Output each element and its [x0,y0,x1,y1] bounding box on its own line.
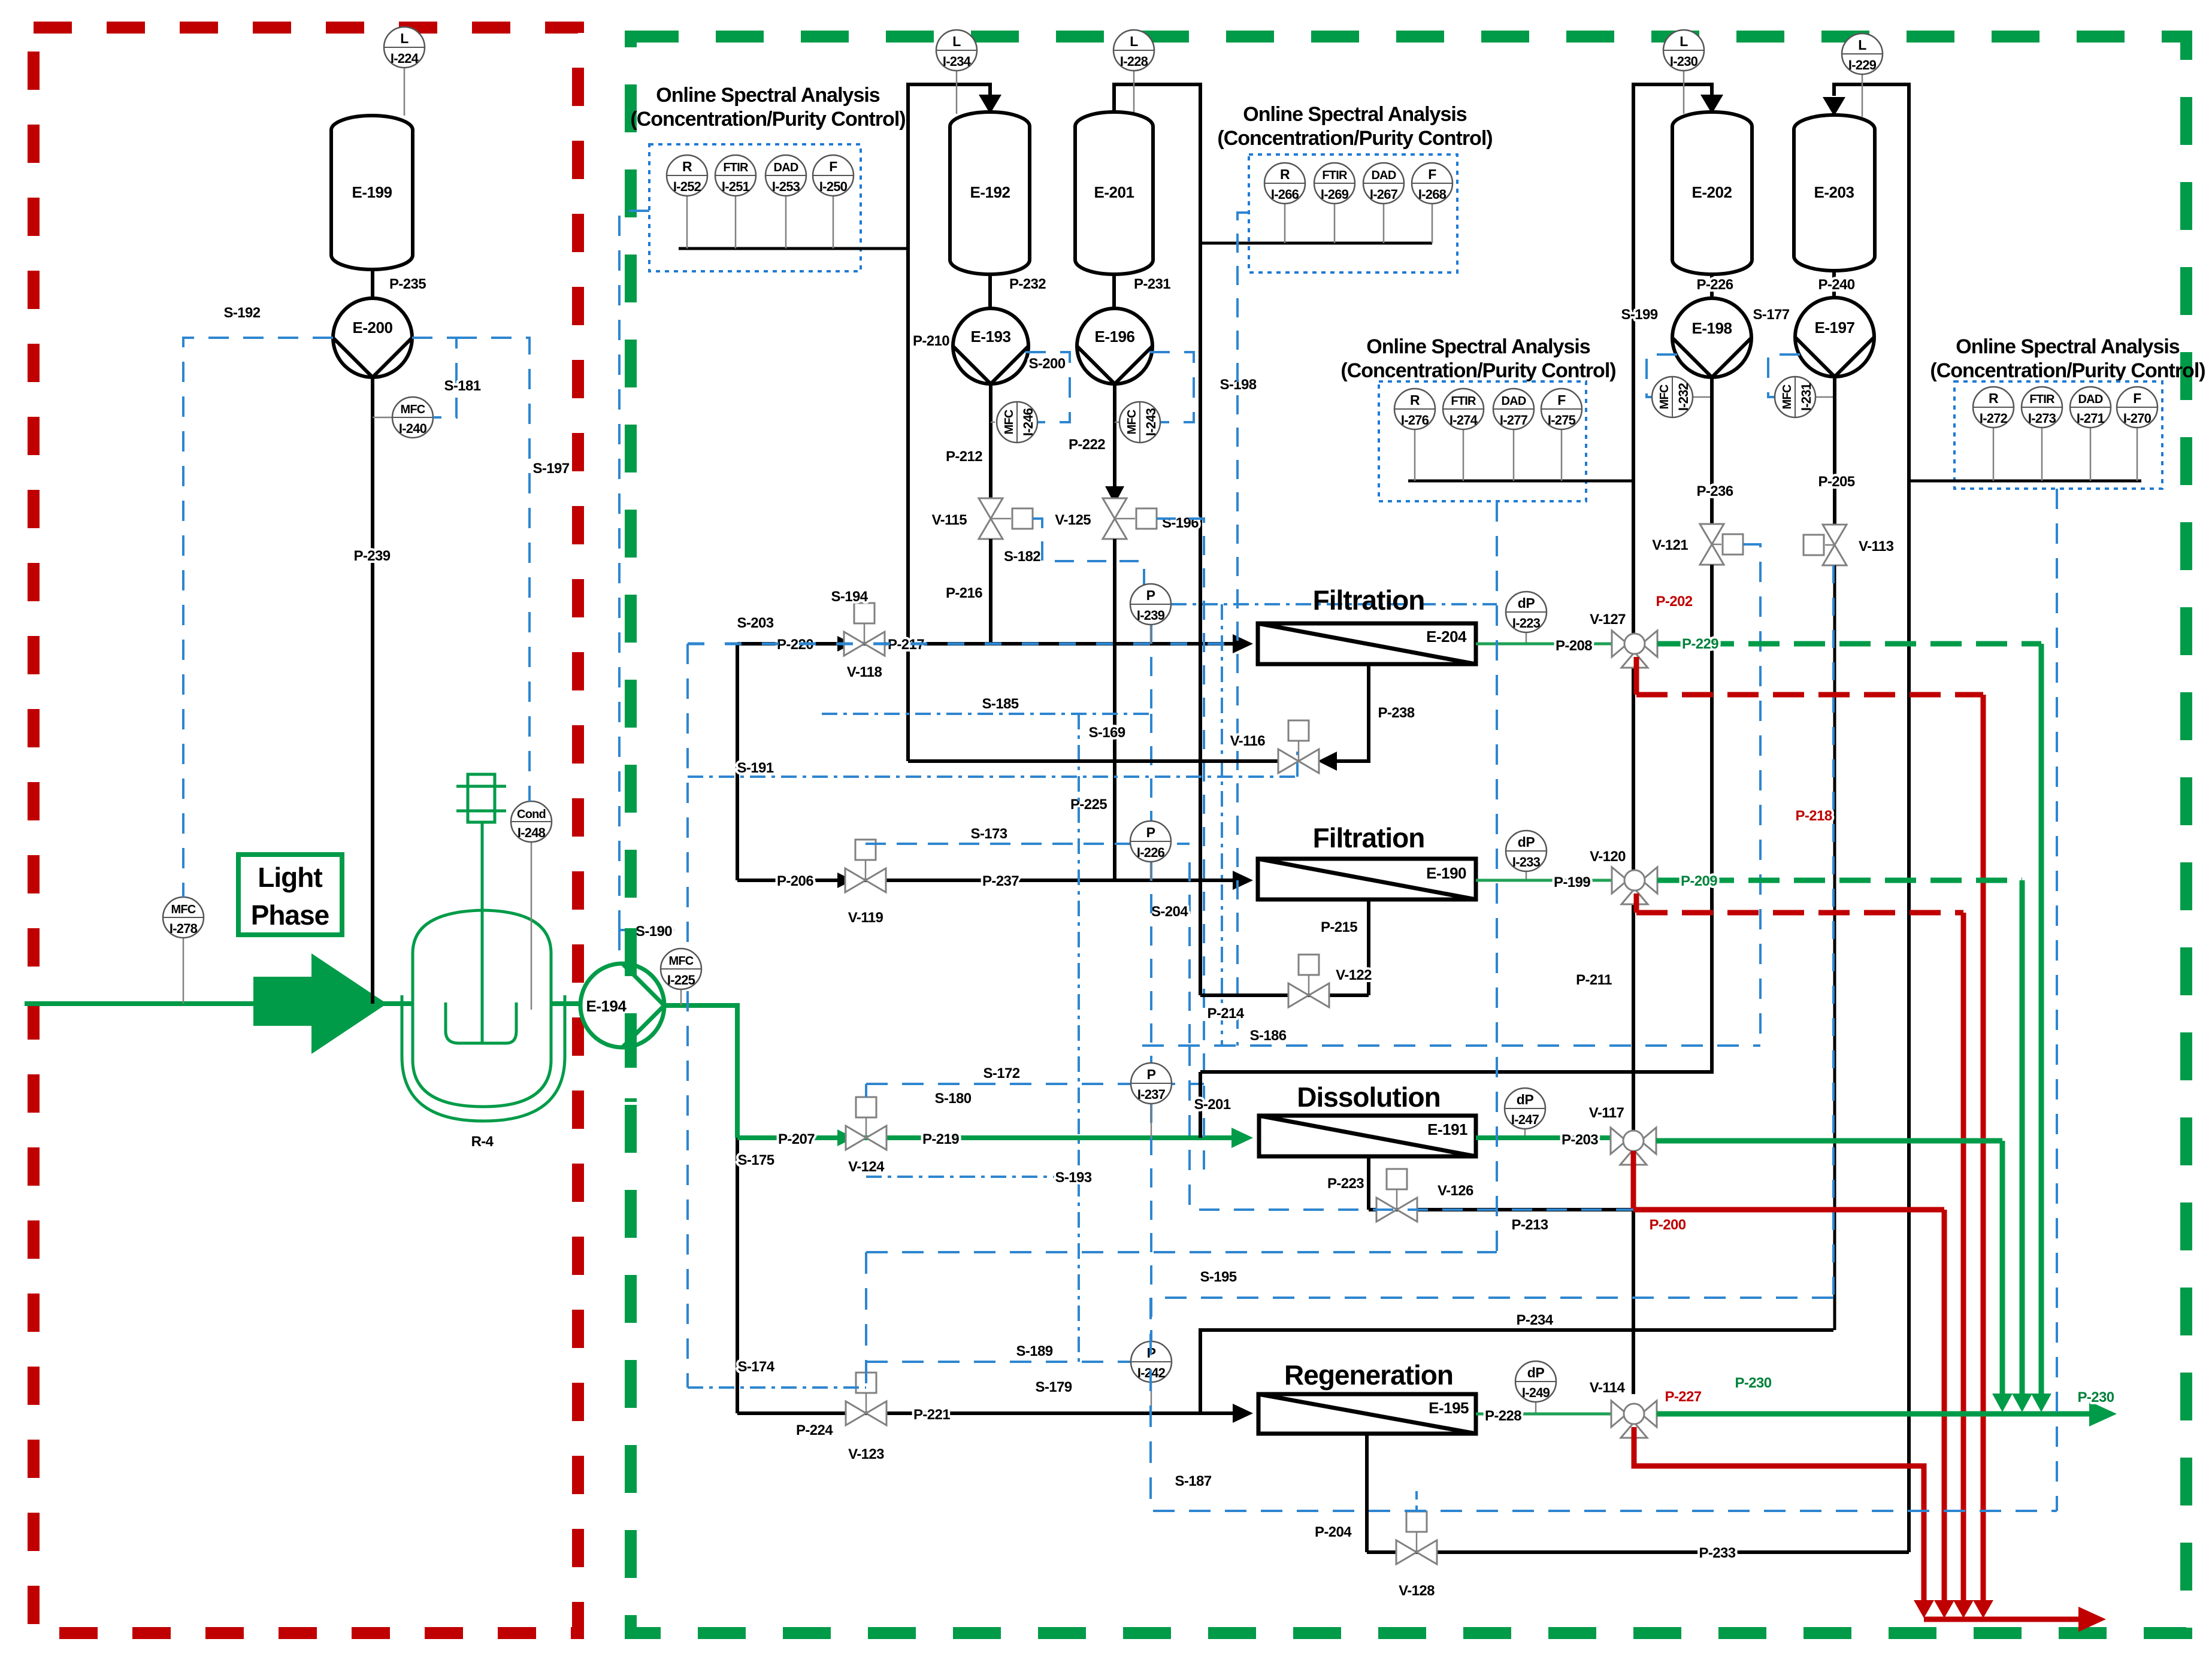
svg-text:I-252: I-252 [673,179,701,194]
svg-text:V-125: V-125 [1055,512,1091,528]
svg-text:P-234: P-234 [1516,1312,1553,1328]
wire P-211 (V-121 down and over to Dissolution feed) [1200,565,1712,1072]
svg-text:E-204: E-204 [1426,628,1467,646]
instrument dP I-249 [1515,1361,1556,1413]
wire P-238 (E-204 retentate) [1318,664,1415,771]
instrument P I-239 [1130,584,1171,644]
svg-text:P-210: P-210 [913,333,949,349]
wire: red waste from V-114 [1634,1427,1924,1611]
svg-text:S-182: S-182 [1004,549,1040,565]
instrument DAD I-267 [1363,163,1404,243]
valve V-113 (vertical, actuated left) [1804,525,1894,565]
svg-text:DAD: DAD [774,161,798,174]
svg-text:I-224: I-224 [391,51,419,66]
wire: red waste from V-120 [1636,808,1963,1611]
svg-text:FTIR: FTIR [2029,393,2055,406]
svg-text:S-173: S-173 [970,826,1007,842]
analyzer sample header 3 [1408,480,1633,483]
svg-text:(Concentration/Purity Control): (Concentration/Purity Control) [1217,127,1492,150]
instrument L I-229 [1842,34,1883,117]
wire P-206 / P-237 header to Filtration E-190 [737,871,1253,890]
svg-text:R: R [1280,166,1290,182]
svg-text:P-209: P-209 [1681,873,1717,889]
svg-text:(Concentration/Purity Control): (Concentration/Purity Control) [1930,359,2205,382]
vessel E-201 [1075,112,1153,274]
red dashed battery-limit border (Light Phase section) [34,28,578,1633]
svg-text:I-248: I-248 [518,825,546,840]
svg-text:V-126: V-126 [1438,1183,1473,1199]
wire P-232 (E-192 to pump E-193) [990,274,1046,309]
svg-text:S-201: S-201 [1194,1096,1230,1113]
svg-text:P: P [1147,1067,1156,1082]
svg-text:P-228: P-228 [1485,1408,1521,1424]
signal S-182 path (V-115 actuator link) [1033,519,1144,584]
svg-text:V-121: V-121 [1652,537,1688,553]
instrument MFC I-232 (rotated) [1652,377,1712,417]
svg-text:L: L [1130,34,1138,49]
signal S-174 [688,1359,866,1388]
svg-text:I-243: I-243 [1143,408,1158,436]
wire P-202 (red waste from V-127) [1636,593,1983,1611]
svg-text:S-192: S-192 [223,305,260,321]
svg-text:I-226: I-226 [1137,845,1165,860]
instrument R I-276 [1394,389,1435,481]
svg-text:Online Spectral Analysis: Online Spectral Analysis [1366,335,1590,358]
svg-text:P-203: P-203 [1562,1132,1598,1148]
instrument DAD I-277 [1493,389,1534,481]
svg-text:V-116: V-116 [1230,733,1266,749]
svg-text:FTIR: FTIR [1322,169,1348,182]
signal S-195 long run [866,1252,1497,1285]
instrument MFC I-231 (rotated) [1775,377,1835,417]
svg-text:P-233: P-233 [1699,1545,1735,1561]
wire P-231 (E-201 to pump E-196) [1114,274,1170,309]
svg-text:S-185: S-185 [982,696,1018,712]
svg-text:S-174: S-174 [737,1359,774,1375]
svg-text:E-190: E-190 [1426,864,1466,882]
svg-text:P-212: P-212 [946,449,982,465]
svg-text:DAD: DAD [1372,169,1396,182]
svg-text:V-124: V-124 [848,1159,885,1175]
signal I-239 to S-185 drop [1150,625,1152,821]
svg-text:P-202: P-202 [1656,593,1692,610]
svg-text:P-230: P-230 [1735,1375,1771,1391]
signal S-185 [822,696,1151,714]
svg-text:V-117: V-117 [1589,1105,1624,1121]
svg-text:(Concentration/Purity Control): (Concentration/Purity Control) [1340,359,1615,382]
blue dotted analyzer box 4 [1954,381,2162,489]
signal S-198 (blue dashed, pump E-196 to MFC I-243) [1149,352,1257,422]
svg-text:I-266: I-266 [1271,187,1299,202]
wire S-201 black feed drop [1194,1072,1230,1138]
valve V-123 (actuated) [846,1373,886,1462]
instrument L I-230 [1663,30,1704,114]
wire P-236 (E-198 down to V-121) [1696,377,1733,524]
svg-text:P: P [1146,825,1155,840]
signal S-187 enclosure [1151,1298,2057,1511]
svg-text:P-237: P-237 [982,873,1019,889]
svg-text:E-200: E-200 [353,319,393,337]
svg-text:P-227: P-227 [1665,1389,1701,1405]
signal S-186 [1142,1028,1760,1046]
wire P-226 (E-202 to pump E-198) [1696,274,1733,298]
svg-text:P-226: P-226 [1696,277,1733,293]
wire P-215 (E-190 retentate) [1321,899,1369,995]
blue dotted analyzer box 3 [1379,381,1586,501]
signal S-199 (blue dashed, pump E-198 to MFC I-232) [1621,307,1677,397]
wire P-205 (E-197 down to V-113) [1818,377,1854,524]
signal drop from analyzer box 3 [1496,501,1498,1252]
instrument MFC I-240 [373,397,433,438]
wire P-234 (V-113 return to Regeneration feed) [1200,1312,1833,1413]
svg-text:P-229: P-229 [1682,636,1718,652]
svg-text:S-204: S-204 [1151,904,1188,920]
svg-text:MFC: MFC [1125,410,1139,434]
svg-text:P-230: P-230 [2077,1389,2114,1405]
wire: red collection header with arrows [1914,1600,2106,1632]
wire: V-113 down to P-234 (black with blue signal overlay) [1833,565,1835,1330]
Light Phase label box [238,855,342,935]
svg-text:FTIR: FTIR [1451,395,1476,408]
pump E-193 [953,308,1028,384]
svg-text:F: F [829,159,837,174]
svg-text:F: F [1428,166,1436,182]
svg-text:P-238: P-238 [1378,705,1414,721]
svg-text:I-249: I-249 [1522,1385,1550,1400]
svg-text:Regeneration: Regeneration [1284,1359,1453,1391]
svg-text:V-113: V-113 [1859,538,1894,555]
svg-text:I-270: I-270 [2123,411,2152,426]
valve V-118 (actuated) [844,603,885,680]
svg-text:P-222: P-222 [1069,437,1105,453]
valve V-121 (vertical, actuated right) [1652,524,1743,565]
svg-text:E-194: E-194 [586,997,627,1015]
3-way valve V-120 [1590,849,1657,904]
svg-text:P-205: P-205 [1818,474,1854,490]
svg-text:P-204: P-204 [1315,1524,1352,1540]
svg-text:I-276: I-276 [1401,413,1429,428]
svg-text:I-229: I-229 [1848,57,1877,72]
Online Spectral Analysis title 3 [1340,335,1615,382]
svg-text:S-193: S-193 [1055,1170,1091,1186]
signal S-196 path (V-125 actuator link) [1157,519,1204,1177]
svg-text:P-239: P-239 [353,548,390,564]
wire P-229 (green dashed product line) [1657,636,2041,1401]
instrument L I-224 [384,27,425,116]
svg-text:S-203: S-203 [737,615,773,631]
svg-text:V-128: V-128 [1399,1583,1435,1599]
svg-text:L: L [1680,34,1688,49]
instrument L I-234 [936,30,977,114]
valve V-124 (actuated) [846,1097,886,1175]
instrument FTIR I-251 [715,155,756,249]
svg-text:I-233: I-233 [1512,855,1541,870]
svg-text:Phase: Phase [251,899,329,931]
svg-text:Dissolution: Dissolution [1297,1082,1440,1113]
wire P-203 green continuation [1656,1141,2002,1401]
signal S-190 [619,923,688,964]
svg-text:dP: dP [1518,834,1535,850]
svg-text:I-273: I-273 [2028,411,2056,426]
svg-text:S-179: S-179 [1035,1379,1072,1395]
3-way valve V-127 [1590,611,1657,668]
svg-text:R: R [1410,392,1420,408]
wire: black lower riser (to P-224) [736,1138,739,1413]
signal S-192 (blue dashed, E-200 to MFC I-278) [183,305,333,897]
wire P-204 (Regeneration bottoms) [1315,1434,1367,1552]
signal S-197 (blue dashed, to Cond I-248) [456,338,570,801]
svg-text:P-200: P-200 [1649,1217,1686,1233]
svg-text:P-232: P-232 [1009,276,1046,292]
svg-text:S-191: S-191 [737,760,773,776]
reactor R-4 (green stirred vessel) [402,774,565,1121]
vessel E-199 [331,116,413,269]
svg-text:L: L [952,34,961,49]
svg-text:P-221: P-221 [913,1407,950,1423]
svg-text:P-208: P-208 [1556,638,1592,654]
wire: E-203 feed riser with top feed [1823,84,1909,1552]
svg-text:P-206: P-206 [777,873,813,889]
svg-text:MFC: MFC [1781,384,1794,409]
svg-text:S-200: S-200 [1028,356,1065,372]
svg-text:S-194: S-194 [831,589,868,605]
svg-text:I-250: I-250 [819,179,848,194]
svg-text:L: L [1858,37,1866,53]
pump E-198 [1672,298,1751,377]
signal trunk from analyzer box2 [1237,213,1249,1046]
svg-text:I-275: I-275 [1548,413,1576,428]
svg-text:V-123: V-123 [848,1446,884,1462]
wire P-230 (green final product line with merge arrows) [1657,1375,2117,1426]
instrument P I-237 [1131,1063,1172,1138]
svg-text:I-246: I-246 [1021,408,1036,436]
instrument MFC I-225 [661,949,701,1005]
svg-text:Cond: Cond [517,808,546,821]
svg-text:Online Spectral Analysis: Online Spectral Analysis [656,84,880,107]
svg-text:V-114: V-114 [1590,1380,1626,1396]
svg-text:I-269: I-269 [1321,187,1349,202]
svg-text:E-199: E-199 [352,183,392,201]
svg-text:E-197: E-197 [1815,319,1855,337]
svg-text:I-247: I-247 [1511,1112,1539,1127]
svg-text:S-169: S-169 [1088,725,1125,741]
signal box around Dissolution (S-201 loop) [1190,1046,1633,1210]
instrument dP I-247 [1505,1088,1545,1138]
instrument MFC I-246 (rotated) [991,402,1037,443]
signal trunk x1148 (blue dashed) [686,644,689,1388]
svg-text:Online Spectral Analysis: Online Spectral Analysis [1956,335,2180,358]
svg-text:V-119: V-119 [848,910,883,926]
svg-text:I-271: I-271 [2077,411,2105,426]
svg-text:F: F [2133,390,2141,406]
svg-text:E-193: E-193 [971,328,1011,346]
svg-text:I-268: I-268 [1418,187,1447,202]
svg-text:DAD: DAD [1502,395,1526,408]
svg-text:E-203: E-203 [1814,183,1854,201]
wire P-228 (green, Regeneration to V-114) [1476,1408,1611,1424]
instrument R I-252 [667,155,707,249]
svg-text:MFC: MFC [1003,410,1016,434]
instrument FTIR I-274 [1443,389,1484,481]
Filtration unit E-190 [1258,822,1476,899]
svg-text:S-172: S-172 [983,1065,1019,1082]
svg-text:E-202: E-202 [1692,183,1732,201]
svg-text:I-225: I-225 [667,973,695,987]
svg-text:S-187: S-187 [1175,1473,1211,1489]
svg-text:P-235: P-235 [389,276,426,292]
svg-text:Online Spectral Analysis: Online Spectral Analysis [1243,103,1467,126]
svg-text:I-223: I-223 [1512,616,1541,631]
vessel E-202 [1672,112,1752,274]
Filtration unit E-204 [1258,584,1476,664]
svg-text:S-195: S-195 [1200,1269,1236,1285]
svg-text:I-274: I-274 [1450,413,1478,428]
pump E-200 [333,298,412,377]
wire P-222 (pump E-196 to V-125, with arrow) [1069,384,1124,504]
wire P-207 / P-219 green feed to Dissolution [737,1128,1253,1148]
svg-text:V-122: V-122 [1336,967,1372,983]
svg-text:MFC: MFC [1658,384,1671,409]
svg-text:I-277: I-277 [1500,413,1528,428]
svg-text:dP: dP [1527,1365,1545,1380]
svg-text:P-211: P-211 [1576,972,1612,988]
Dissolution unit E-191 [1259,1082,1476,1156]
instrument R I-266 [1264,163,1305,243]
analyzer sample header 4 [1909,480,2141,483]
svg-text:Light: Light [258,862,322,893]
svg-text:P-236: P-236 [1696,483,1733,499]
valve V-128 (actuated) [1396,1511,1437,1599]
svg-text:I-234: I-234 [943,54,972,69]
signal S-193 [866,714,1092,1362]
wire P-233 (V-128 to E-203 riser) [1367,1545,1909,1561]
instrument Cond I-248 [511,801,552,1010]
svg-text:I-278: I-278 [170,921,198,936]
svg-text:S-180: S-180 [934,1090,971,1107]
blue dotted analyzer box 1 [649,144,861,271]
wire: E-201 recycle riser and top feed [1114,84,1200,995]
valve V-126 (actuated) [1376,1169,1473,1222]
analyzer sample header 1 [679,247,908,250]
instrument DAD I-271 [2070,387,2111,481]
svg-text:R-4: R-4 [471,1134,494,1150]
svg-text:I-267: I-267 [1370,187,1398,202]
svg-text:E-196: E-196 [1095,328,1135,346]
Online Spectral Analysis title 4 [1930,335,2205,382]
wire: black distribution header segment (P-220/P-206 riser) [736,644,739,880]
svg-text:P-224: P-224 [796,1422,833,1438]
wire P-213 (V-126 line to V-117 bottom) [1369,1164,1633,1233]
svg-text:P-223: P-223 [1327,1176,1364,1192]
svg-text:dP: dP [1517,1092,1534,1107]
signal S-191 [688,749,1297,777]
svg-text:I-251: I-251 [722,179,750,194]
analyzer sample header 2 [1200,242,1432,245]
vessel E-203 [1794,115,1875,271]
valve V-122 (actuated) [1288,955,1372,1007]
svg-text:R: R [682,159,692,174]
svg-text:MFC: MFC [669,955,694,968]
instrument DAD I-253 [765,155,806,249]
svg-text:P-214: P-214 [1207,1005,1244,1022]
svg-text:P-231: P-231 [1134,276,1170,292]
svg-text:F: F [1557,392,1566,408]
instrument F I-268 [1412,163,1453,243]
svg-text:E-195: E-195 [1429,1399,1469,1417]
svg-text:S-186: S-186 [1249,1028,1286,1044]
wire P-220 / P-217 header to Filtration E-204 [737,634,1253,653]
instrument F I-270 [2117,387,2157,481]
svg-text:P-207: P-207 [778,1131,815,1147]
svg-text:MFC: MFC [401,403,425,416]
wire P-199 (green, E-190 to V-120) [1476,874,1612,890]
svg-text:dP: dP [1518,595,1535,611]
svg-text:V-115: V-115 [932,512,967,528]
svg-text:P-225: P-225 [1070,796,1107,813]
signal S-204 drop to V-122 [1151,862,1190,1046]
wire P-223 (Dissolution bottoms) [1327,1156,1369,1210]
instrument dP I-233 [1506,831,1547,880]
valve V-115 (vertical, actuated) [932,498,1033,539]
instrument F I-250 [813,155,854,249]
svg-text:FTIR: FTIR [723,161,749,174]
svg-text:I-231: I-231 [1799,383,1814,411]
signal S-172 [866,1065,1204,1107]
instrument FTIR I-269 [1314,163,1355,243]
svg-text:DAD: DAD [2078,393,2103,406]
3-way valve V-114 [1590,1380,1657,1438]
Online Spectral Analysis title 1 [630,84,905,131]
svg-text:R: R [1989,390,1999,406]
svg-text:S-199: S-199 [1621,307,1657,323]
wire P-240 (E-203 to pump E-197) [1818,271,1854,298]
svg-text:S-190: S-190 [636,923,672,940]
svg-text:S-197: S-197 [532,461,569,477]
wire P-203 (green, Dissolution to V-117) [1476,1132,1611,1148]
valve V-116 (actuated) [1230,720,1319,773]
svg-text:MFC: MFC [171,903,196,916]
svg-text:I-237: I-237 [1137,1087,1166,1102]
pump E-194 (green) [580,964,664,1047]
signal stub to V-128 actuator [1415,1491,1418,1511]
signal S-173 [866,826,1190,844]
svg-text:S-175: S-175 [737,1152,774,1168]
wire: E-202 transfer riser (main product line) with top feed [1633,84,1723,1394]
svg-text:S-177: S-177 [1753,307,1789,323]
signal S-200 (blue dashed, pump E-193 to MFC I-246) [1025,352,1070,422]
svg-text:V-118: V-118 [847,664,882,680]
svg-text:I-228: I-228 [1120,54,1148,69]
svg-text:E-198: E-198 [1692,319,1732,337]
green dashed battery-limit border (purification section) [631,37,2186,1633]
instrument P I-226 [1130,821,1171,880]
svg-text:S-181: S-181 [444,378,480,394]
svg-text:E-191: E-191 [1427,1120,1467,1138]
svg-text:V-127: V-127 [1590,611,1626,628]
svg-text:I-232: I-232 [1676,383,1691,411]
signal from V-121 actuator to S-186 [1743,544,1760,1046]
signal I-237 trunk segments [1150,862,1152,1341]
svg-text:I-240: I-240 [399,421,427,436]
svg-text:P-216: P-216 [946,585,982,601]
signal drop from analyzer box 4 [2056,489,2058,1511]
wire P-208 (green, E-204 to V-127) [1476,638,1612,654]
svg-text:P-215: P-215 [1321,919,1357,935]
vessel E-192 [950,112,1030,274]
svg-text:I-253: I-253 [772,179,800,194]
wire P-235 (E-199 to E-200) [373,269,426,299]
svg-text:P-199: P-199 [1554,874,1590,890]
